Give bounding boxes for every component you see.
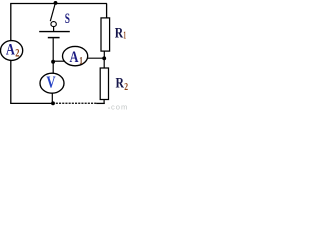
wire left border upper xyxy=(10,4,12,41)
wire top border to R1 xyxy=(106,4,108,18)
wire bottom border solid left xyxy=(10,102,53,104)
wire bottom border solid right xyxy=(96,102,104,104)
svg-text:1: 1 xyxy=(79,55,83,67)
battery positive plate xyxy=(39,31,70,33)
svg-text:A: A xyxy=(6,42,15,59)
resistor R1 body xyxy=(101,18,110,51)
svg-text:com: com xyxy=(111,103,128,112)
wire top border xyxy=(10,3,107,5)
ammeter A1 body xyxy=(63,46,88,65)
wire V to bottom border xyxy=(51,93,53,103)
svg-text:R: R xyxy=(115,25,124,41)
wire left border lower xyxy=(10,60,12,103)
svg-text:1: 1 xyxy=(123,29,126,41)
switch S contact circle xyxy=(51,22,56,27)
svg-text:A: A xyxy=(70,49,79,66)
node junction right xyxy=(102,56,106,60)
wire R1 to junction xyxy=(103,51,105,58)
svg-text:2: 2 xyxy=(124,81,128,93)
ammeter A2 body xyxy=(1,41,23,61)
node junction bottom xyxy=(51,101,55,105)
node junction middle xyxy=(51,60,55,64)
svg-text:V: V xyxy=(46,72,55,91)
wire junction to R2 xyxy=(103,59,105,68)
wire bottom border dashed middle xyxy=(56,102,97,104)
node switch junction on top wire xyxy=(54,1,58,5)
wire junction to A1 xyxy=(53,60,66,62)
wire A1 to right junction xyxy=(87,57,104,59)
svg-text:R: R xyxy=(116,76,125,92)
battery negative plate xyxy=(48,37,60,39)
voltmeter V body xyxy=(40,73,64,93)
wire battery to V xyxy=(52,38,54,73)
wire right branch bottom stub xyxy=(103,100,105,105)
svg-text:2: 2 xyxy=(15,46,19,60)
watermark dot xyxy=(108,107,110,108)
switch S lever xyxy=(50,5,55,22)
resistor R2 body xyxy=(100,68,108,100)
wire switch to battery xyxy=(53,27,55,32)
svg-text:S: S xyxy=(65,11,70,27)
